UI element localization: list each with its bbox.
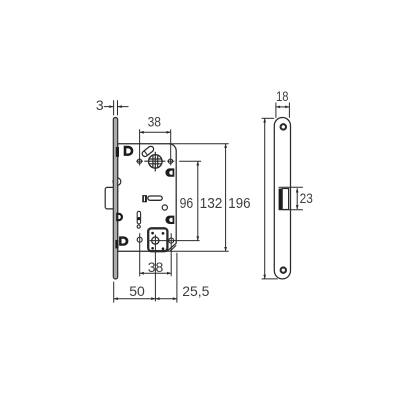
chamfer inner line <box>170 245 176 251</box>
faceplate side view <box>113 118 117 279</box>
extension 38 left <box>139 129 141 165</box>
latch front black <box>279 189 283 210</box>
fixing hole top-left <box>137 159 141 163</box>
dim 38 bottom <box>140 272 172 274</box>
case top extension line <box>169 143 229 145</box>
rivet tab D2 right-upper <box>165 168 174 176</box>
plate tab top <box>116 147 119 157</box>
svg-text:25,5: 25,5 <box>182 283 209 299</box>
pill slot <box>148 196 162 200</box>
screw hole bottom <box>281 267 286 272</box>
small black square <box>142 195 147 202</box>
rivet tab D4 bottom-left <box>119 236 128 245</box>
fixing hole bottom-left <box>137 237 142 242</box>
svg-text:38: 38 <box>148 114 162 130</box>
rivet tab D5 right-lower <box>165 216 174 224</box>
svg-text:96: 96 <box>180 196 194 212</box>
dim 132 <box>225 144 227 252</box>
case bottom extension line <box>167 250 229 252</box>
rivet tab D3 left-edge <box>116 213 123 222</box>
faceplate front view <box>274 118 290 279</box>
dim 23 <box>279 187 303 210</box>
fixing hole bottom-right <box>169 238 174 243</box>
plate tab bottom <box>115 240 118 248</box>
rivet tab D1 top-left <box>124 146 134 156</box>
svg-text:50: 50 <box>129 283 145 299</box>
latch front white <box>282 189 288 210</box>
dim 50 / 25,5 <box>114 298 177 300</box>
svg-text:38: 38 <box>148 259 164 275</box>
svg-text:18: 18 <box>276 88 289 104</box>
tiny circle <box>137 225 140 228</box>
slanted slot <box>141 145 155 157</box>
latch bolt side view <box>105 187 113 209</box>
screw hole top <box>281 124 286 129</box>
edge lug circle <box>113 178 121 186</box>
dim 96 <box>179 160 201 162</box>
dim 3 <box>104 106 129 108</box>
spindle hub (hatched) <box>144 152 165 172</box>
WC follower square <box>148 228 167 251</box>
svg-text:132: 132 <box>200 196 223 212</box>
svg-text:196: 196 <box>228 196 250 212</box>
dim 38 top <box>140 131 171 133</box>
cross line horizontal bottom <box>150 240 200 242</box>
center line vertical (50 extension) <box>154 235 156 302</box>
dim 18 <box>276 106 290 108</box>
extension 38 right <box>170 129 172 165</box>
middle circle <box>162 205 167 210</box>
svg-text:23: 23 <box>300 190 313 206</box>
WC follower circle <box>152 237 159 244</box>
dim 196 <box>264 118 266 279</box>
svg-text:3: 3 <box>96 97 104 113</box>
lock case outline <box>118 144 177 252</box>
fixing hole top-right <box>168 159 172 163</box>
vertical oblong <box>137 211 140 224</box>
